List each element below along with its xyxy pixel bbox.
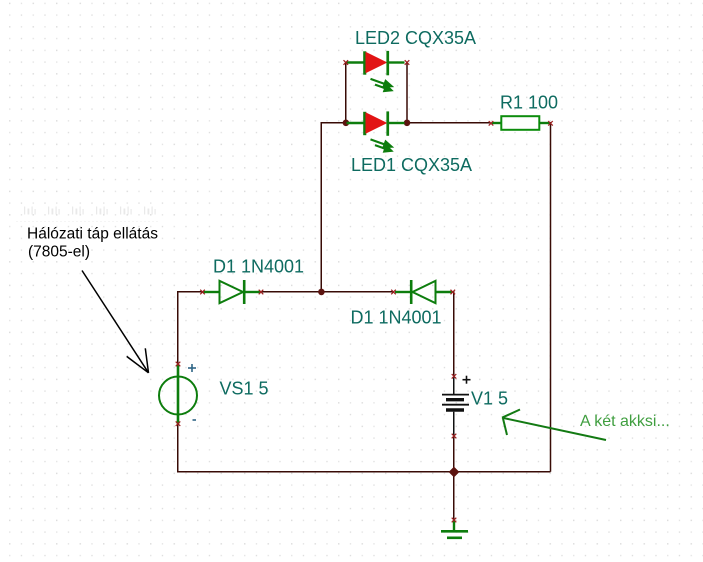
svg-text:R1 100: R1 100	[500, 93, 558, 113]
svg-text:(7805-el): (7805-el)	[28, 244, 90, 261]
svg-text:LED2 CQX35A: LED2 CQX35A	[355, 28, 476, 48]
svg-text:LED1 CQX35A: LED1 CQX35A	[351, 155, 472, 175]
svg-text:D1 1N4001: D1 1N4001	[213, 257, 304, 277]
svg-text:A két akksi...: A két akksi...	[580, 413, 670, 430]
svg-text:Hálózati táp ellátás: Hálózati táp ellátás	[27, 226, 158, 243]
svg-text:D1 1N4001: D1 1N4001	[351, 308, 442, 328]
svg-text:V1 5: V1 5	[471, 389, 508, 409]
svg-text:VS1 5: VS1 5	[220, 379, 269, 399]
